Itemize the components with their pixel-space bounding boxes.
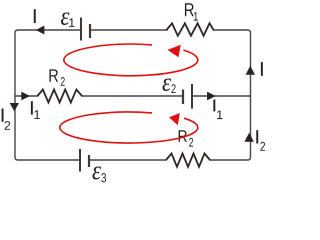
label I (top wire) xyxy=(34,9,36,23)
label R1 xyxy=(185,3,198,20)
wire: bottom middle segment between R2 and ε3 xyxy=(89,159,166,161)
wire: top middle segment between ε1 and R1 xyxy=(90,29,167,31)
current arrow I2 (right wire lower, pointing up) xyxy=(244,133,254,142)
label R2 (middle branch) xyxy=(49,69,64,85)
label I2 (left wire) xyxy=(2,109,11,130)
battery EMF source ε3 xyxy=(80,149,89,172)
wire: middle branch between R2 and ε2 xyxy=(82,95,183,97)
label I1 (middle branch left) xyxy=(31,101,40,119)
resistor R1 xyxy=(167,23,214,36)
wire: middle branch left lead xyxy=(15,95,38,97)
loop arrowhead (bottom mesh) xyxy=(169,113,180,125)
loop arrow (bottom mesh, counterclockwise) xyxy=(60,112,198,143)
resistor R2 (bottom wire) xyxy=(166,154,210,167)
current arrow I1 (middle branch left, pointing right) xyxy=(21,92,30,101)
label ε1 xyxy=(61,12,75,26)
current arrow I1 (middle branch right, pointing right) xyxy=(207,92,216,101)
label ε2 xyxy=(162,78,175,93)
label ε3 xyxy=(92,166,106,182)
wire: outer loop left side (top-left segment, left wire, bottom-left segment) xyxy=(15,30,81,160)
battery EMF source ε1 xyxy=(81,18,90,41)
current arrow I (top wire, pointing left) xyxy=(36,26,45,35)
current arrow I (right wire upper, pointing up) xyxy=(246,66,255,75)
battery EMF source ε2 xyxy=(183,84,192,109)
label R2 (bottom wire) xyxy=(179,130,193,146)
label I1 (middle branch right) xyxy=(213,100,222,120)
wire: outer loop right side (top-right segment, right wire, bottom-right segment) xyxy=(210,30,251,160)
wire: middle branch right lead after ε2 xyxy=(192,95,251,97)
label I (right wire upper) xyxy=(261,62,263,76)
loop arrow (top mesh, counterclockwise) xyxy=(64,44,198,76)
loop arrowhead (top mesh) xyxy=(168,45,181,57)
resistor R2 (middle branch) xyxy=(38,90,83,103)
label I2 (right wire lower) xyxy=(256,130,265,151)
current arrow I2 (left wire, pointing down) xyxy=(10,103,19,111)
